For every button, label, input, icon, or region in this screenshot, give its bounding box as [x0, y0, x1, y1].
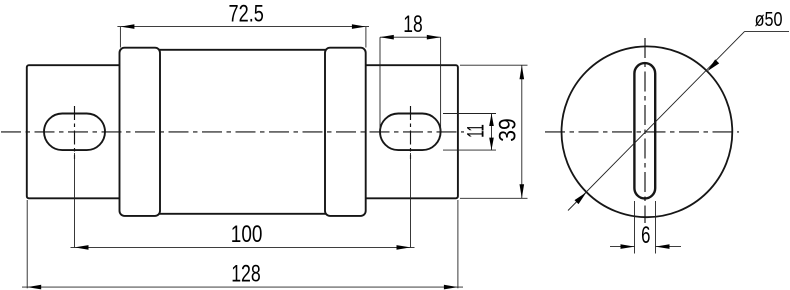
svg-text:11: 11	[463, 124, 490, 138]
svg-text:72.5: 72.5	[229, 0, 264, 27]
right end cap ring	[325, 48, 366, 216]
arrowhead 11 bottom	[489, 138, 494, 151]
arrowhead 39 top	[520, 65, 525, 79]
extension line slot top for 11	[443, 113, 496, 115]
extension line slot right for 18	[440, 37, 442, 131]
arrowhead 72.5 left	[120, 24, 134, 29]
arrowhead 6 left (outside)	[621, 244, 635, 249]
vertical centerline of end view	[644, 38, 646, 223]
extension line blade right for 128	[457, 200, 459, 288]
arrowhead o50 upper-right on circle	[707, 59, 719, 71]
arrowhead 72.5 right	[352, 24, 366, 29]
arrowhead 11 top	[489, 114, 494, 127]
dimension line 128	[22, 286, 463, 288]
extension line blade top for 39	[460, 64, 528, 66]
arrowhead 100 left	[75, 245, 89, 250]
extension line end-view blade right for 6	[655, 201, 657, 254]
arrowhead 18 right	[427, 35, 441, 40]
arrowhead 6 right (outside)	[656, 244, 670, 249]
vertical centerline of right slot	[410, 106, 412, 159]
arrowhead o50 lower-left on circle	[575, 192, 587, 204]
left blade terminal	[27, 65, 127, 198]
extension line end-view blade left for 6	[634, 201, 636, 254]
svg-text:ø50: ø50	[755, 9, 783, 31]
extension line right ring top	[365, 27, 367, 48]
dimension line 100	[71, 246, 415, 248]
vertical centerline of left slot	[74, 106, 76, 159]
horizontal centerline of side view	[1, 131, 464, 133]
extension line slot bottom for 11	[443, 149, 496, 151]
extension line blade left for 128	[26, 200, 28, 288]
left end cap ring	[120, 48, 161, 216]
right blade slot (obround)	[380, 114, 441, 151]
end view circle o50	[562, 46, 733, 217]
arrowhead 18 left	[380, 35, 394, 40]
svg-text:6: 6	[641, 222, 650, 249]
extension line left slot center for 100	[74, 153, 76, 248]
dimension line 72.5	[117, 26, 369, 28]
horizontal centerline of end view	[545, 131, 739, 133]
extension line right slot center for 100	[410, 153, 412, 248]
end view blade (obround)	[634, 63, 655, 198]
extension line left ring top	[119, 27, 121, 48]
arrowhead 128 right	[444, 285, 458, 290]
dimension line 6 right tail	[656, 246, 682, 248]
fuse body (barrel)	[156, 50, 328, 214]
svg-text:18: 18	[403, 11, 422, 38]
leader line o50 diagonal	[568, 31, 745, 210]
dimension line 11	[491, 114, 493, 151]
extension line slot left for 18	[379, 37, 381, 131]
svg-text:39: 39	[495, 118, 522, 142]
svg-text:128: 128	[231, 261, 261, 288]
arrowhead 100 right	[397, 245, 411, 250]
dimension line 39	[521, 65, 523, 198]
svg-text:100: 100	[231, 221, 263, 248]
dimension line 6 left tail	[610, 246, 635, 248]
arrowhead 39 bottom	[520, 184, 525, 198]
extension line blade bottom for 39	[460, 197, 528, 199]
right blade terminal	[358, 65, 458, 198]
leader line o50 horizontal landing	[745, 30, 789, 32]
left blade slot (obround)	[44, 114, 105, 151]
arrowhead 128 left	[27, 285, 41, 290]
dimension line 18	[380, 36, 441, 38]
